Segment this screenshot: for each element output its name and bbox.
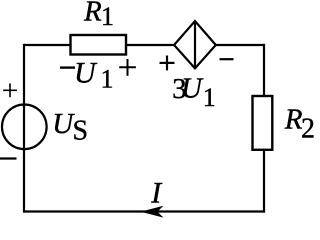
wire R1 right to dependent source <box>126 44 175 46</box>
svg-text:1: 1 <box>101 64 114 93</box>
svg-text:R: R <box>83 0 102 28</box>
svg-text:1: 1 <box>203 83 216 112</box>
wire top-left horizontal (node A to R1 left) <box>24 44 71 46</box>
label US (source voltage) <box>52 108 88 147</box>
label R2 <box>284 104 315 145</box>
US plus polarity mark <box>3 83 17 97</box>
wire right side bottom (R2 to bottom-right corner) <box>263 150 265 213</box>
voltage source US (circle) <box>2 105 47 150</box>
svg-text:U: U <box>74 57 98 90</box>
svg-text:1: 1 <box>101 2 114 31</box>
label 3U1 (controlled source value) <box>172 73 216 113</box>
label U1 (voltage across R1) <box>74 57 114 94</box>
US minus polarity mark <box>0 157 17 159</box>
svg-text:I: I <box>150 177 163 210</box>
wire bottom (bottom-right to bottom-left corner) <box>24 210 265 212</box>
current arrow I (pointing left) <box>142 206 163 217</box>
wire dependent source to top-right corner <box>215 44 265 46</box>
resistor R2 <box>253 96 273 150</box>
U1 minus polarity mark <box>60 66 75 68</box>
wire left side (bottom-left corner up to node A) <box>23 44 25 213</box>
svg-text:S: S <box>73 116 89 147</box>
dependent source E1 (diamond, 3U1) <box>174 21 216 68</box>
svg-text:R: R <box>284 104 303 136</box>
label R1 <box>83 0 114 31</box>
svg-text:2: 2 <box>301 114 315 145</box>
3U1 plus polarity mark <box>160 56 175 71</box>
wire right side top (corner down to R2) <box>263 44 265 97</box>
U1 plus polarity mark <box>119 59 136 76</box>
resistor R1 <box>71 35 127 55</box>
3U1 minus polarity mark <box>220 58 234 60</box>
svg-text:U: U <box>181 73 204 105</box>
